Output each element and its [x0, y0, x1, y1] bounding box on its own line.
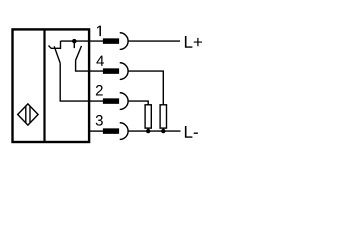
- sensor body outline: [13, 29, 90, 142]
- wire: pin 4 to load resistor R2 top: [128, 71, 163, 105]
- node: R1 junction on L- rail: [146, 129, 150, 133]
- switch fixed contact (left, NC side): [51, 41, 61, 48]
- net label L+: [185, 36, 202, 48]
- switch actuator tick: [49, 46, 52, 49]
- wire: NO blade lead down to pin 4 row: [76, 60, 104, 71]
- wire: pin 3 to L- rail: [128, 130, 181, 132]
- node: junction on pin-1 feed: [72, 39, 77, 44]
- pin 4 contact: [103, 63, 128, 80]
- pin 3 label: [96, 115, 103, 126]
- pin 4 label: [96, 56, 104, 66]
- load resistor R2: [160, 105, 166, 128]
- pin 1 label: [97, 26, 101, 37]
- pin 3 contact: [103, 123, 128, 140]
- node: R2 junction on L- rail: [161, 129, 165, 133]
- wire: R1 bottom lead: [147, 128, 149, 131]
- inductive proximity sensor symbol (diamond): [18, 104, 38, 125]
- pin 2 contact: [103, 93, 128, 110]
- pin 1 contact: [103, 33, 128, 50]
- wire: pin 3 stub from case: [88, 130, 103, 132]
- wire: pin 1 to L+: [128, 40, 180, 42]
- sensor compartment divider: [43, 29, 45, 143]
- wire: R2 bottom lead: [162, 128, 164, 131]
- wire: pin 1 feed (internal, through case to pin 1): [61, 40, 104, 42]
- wire: pin 2 to load resistor R1 top: [128, 101, 148, 105]
- switch movable blade (NC contact, crosses fixed bar): [54, 46, 60, 63]
- switch fixed contact stub (right, NO side): [73, 41, 75, 48]
- switch movable blade (NO contact, open): [76, 46, 82, 60]
- net label L-: [185, 126, 198, 138]
- load resistor R1: [145, 105, 151, 128]
- wire: NC blade lead down to pin 2 row: [60, 63, 103, 101]
- pin 2 label: [96, 85, 103, 95]
